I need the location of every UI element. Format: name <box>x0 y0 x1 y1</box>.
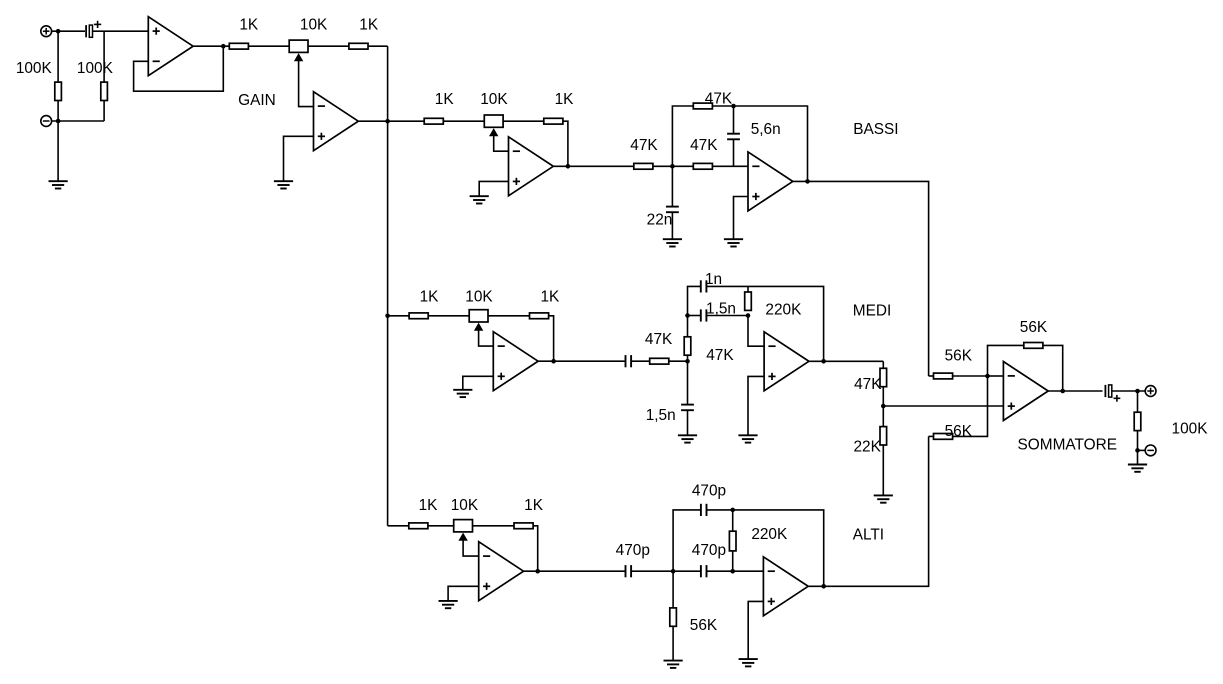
svg-text:5,6n: 5,6n <box>751 121 781 138</box>
svg-text:47K: 47K <box>645 331 673 348</box>
wire U9 +in to ground <box>748 601 763 659</box>
wire 100K #2 down <box>103 101 105 122</box>
wire pot wiper to U5 -in <box>479 330 494 346</box>
wire U6 output <box>809 360 883 362</box>
node bus MEDI tap <box>385 314 390 319</box>
capacitor C output (polarized) <box>1104 385 1106 397</box>
wire bus to 1K ALTI <box>388 525 409 527</box>
node U6 output <box>821 359 826 364</box>
wire U2 output row <box>359 120 425 122</box>
wire cap 22n to ground <box>671 212 673 239</box>
potentiometer 10K MEDI <box>469 310 488 322</box>
svg-text:BASSI: BASSI <box>853 121 898 138</box>
svg-text:1K: 1K <box>524 497 544 514</box>
wire pot wiper to U3 -in <box>494 136 509 152</box>
wire U6 +in to ground <box>748 376 764 435</box>
wire fb to output <box>1043 345 1063 391</box>
ground U5 +in <box>453 389 472 391</box>
wire 100K out down <box>1137 431 1139 465</box>
resistor 1K (GAIN in) <box>229 43 248 49</box>
wire node G to 220K <box>732 510 734 531</box>
wire 56K to ground <box>672 626 674 660</box>
wire bus to 1K MEDI <box>388 315 409 317</box>
node MEDI C <box>685 313 690 318</box>
svg-text:10K: 10K <box>451 497 479 514</box>
wire 1K fb to U5 out <box>549 316 554 361</box>
resistor 22K <box>880 427 887 445</box>
wire 100K #1 to node <box>57 101 59 122</box>
svg-text:1K: 1K <box>239 17 259 34</box>
wire node to 100K out <box>1137 391 1139 412</box>
node MEDI D <box>746 313 751 318</box>
wire cap to 47K MEDI <box>631 360 650 362</box>
capacitor 22n <box>666 206 679 208</box>
capacitor 470p (fb top) <box>700 504 702 516</box>
svg-text:47K: 47K <box>854 376 882 393</box>
ground 22K <box>874 494 893 496</box>
ground 22n <box>663 238 682 240</box>
wire 1n to U6 out <box>706 286 823 361</box>
wire pot to 1K fb BASSI <box>503 120 544 122</box>
ground input <box>49 180 68 182</box>
svg-text:56K: 56K <box>945 423 973 440</box>
svg-text:MEDI: MEDI <box>853 302 891 319</box>
wire pot wiper to U2 -in <box>299 61 314 107</box>
wire 1K to pot <box>248 45 289 47</box>
wire signal bus vertical <box>387 46 389 526</box>
wire U3 +in to ground <box>479 181 508 196</box>
wire 1K to pot MEDI <box>428 315 469 317</box>
wire node to - terminal <box>1138 449 1146 451</box>
svg-text:GAIN: GAIN <box>238 92 276 109</box>
node U2 output / bus <box>385 119 390 124</box>
op-amp U7 SOMMATORE <box>1003 362 1048 421</box>
wire 47K div to node E <box>882 387 884 406</box>
resistor 1K (GAIN fb) <box>349 43 368 49</box>
node U1 output <box>221 44 226 49</box>
node MEDI B <box>685 359 690 364</box>
node input bottom <box>56 119 61 124</box>
resistor 47K (BASSI series 2) <box>693 163 712 169</box>
potentiometer 10K BASSI <box>484 115 503 127</box>
svg-text:22K: 22K <box>854 438 882 455</box>
svg-text:470p: 470p <box>692 542 726 559</box>
node divider E <box>881 404 886 409</box>
wire 1K to pot ALTI <box>428 525 453 527</box>
svg-text:1,5n: 1,5n <box>646 407 676 424</box>
op-amp U2 GAIN <box>314 92 359 151</box>
ground U2 +in <box>274 180 293 182</box>
wire 47K fb to node <box>712 105 733 107</box>
wire node to cap 5,6n <box>733 106 735 134</box>
wire node E to 22K <box>882 406 884 427</box>
wire U6 out down to 47K div <box>882 361 884 368</box>
wire U1 feedback <box>134 46 224 91</box>
wire -in node to U7 <box>988 375 1004 377</box>
resistor 47K (divider) <box>880 368 887 386</box>
wire ALTI riser to 56K <box>929 435 934 437</box>
capacitor 5,6n <box>727 133 740 135</box>
wire pot to 1K fb <box>308 45 349 47</box>
node U3 output <box>566 164 571 169</box>
svg-text:22n: 22n <box>647 212 673 229</box>
node ALTI F <box>671 569 676 574</box>
svg-text:1K: 1K <box>420 289 440 306</box>
svg-text:56K: 56K <box>690 617 718 634</box>
svg-text:1K: 1K <box>419 497 439 514</box>
wire 47K to U4 -in <box>712 165 748 167</box>
resistor 100K #2 <box>101 82 108 100</box>
wire 1,5n to node D <box>706 315 748 317</box>
svg-text:47K: 47K <box>706 347 734 364</box>
svg-text:47K: 47K <box>690 137 718 154</box>
wire fb node to U4 out <box>734 106 808 181</box>
input terminal - (left) <box>41 116 52 127</box>
wire node E to U7 +in <box>883 405 1003 407</box>
resistor 1K (MEDI in) <box>409 313 428 319</box>
wire cap 5,6n to -in wire <box>733 139 735 166</box>
op-amp U6 MEDI <box>764 332 809 391</box>
wire down to resistor 100K #1 <box>57 31 59 82</box>
svg-text:10K: 10K <box>480 91 508 108</box>
node U8 output <box>535 569 540 574</box>
wire 47K to 47K BASSI <box>653 165 693 167</box>
svg-text:1K: 1K <box>435 91 455 108</box>
node input top <box>56 29 61 34</box>
resistor 56K (ALTI shunt) <box>670 608 677 626</box>
op-amp U9 ALTI <box>763 557 808 616</box>
wire BASSI riser to 56K <box>929 375 934 377</box>
wire 220K to node H <box>732 551 734 571</box>
input terminal + (left) <box>41 26 52 37</box>
node output top <box>1135 389 1140 394</box>
wire 1,5n shunt to ground <box>687 410 689 435</box>
wire 220K stub top <box>747 286 749 292</box>
wire fb up <box>988 345 1025 376</box>
wire BASSI fb up <box>672 106 693 166</box>
wire down to resistor 100K #2 <box>103 31 105 82</box>
wire U2 +in to ground <box>284 136 314 181</box>
wire 470p top to U9 out <box>707 510 824 586</box>
output terminal + <box>1145 386 1156 397</box>
wire U4 output to summing <box>793 181 929 376</box>
node summing -in <box>985 374 990 379</box>
wire U8 +in to ground <box>448 586 479 601</box>
capacitor 1n <box>700 280 702 292</box>
wire 47K to U6 -in wire <box>669 360 688 362</box>
resistor 1K (ALTI fb) <box>514 523 533 529</box>
resistor 1K (ALTI in) <box>409 523 428 529</box>
wire U1 output <box>193 45 229 47</box>
resistor 1K (BASSI in) <box>424 118 443 124</box>
wire U9 output to summing <box>808 436 928 586</box>
node U7 output <box>1060 389 1065 394</box>
wire node B down to 1,5n gnd cap <box>687 361 689 404</box>
svg-text:47K: 47K <box>705 90 733 107</box>
svg-text:470p: 470p <box>692 482 726 499</box>
wire 470p mid to U9 -in <box>707 570 764 572</box>
svg-text:1K: 1K <box>555 91 575 108</box>
polarity + of input cap <box>94 23 101 25</box>
wire pot wiper to U8 -in <box>463 540 479 556</box>
svg-text:47K: 47K <box>630 137 658 154</box>
resistor 220K (ALTI) <box>729 531 736 551</box>
ground 1,5n shunt <box>678 434 697 436</box>
wire node D to U6 -in <box>748 316 764 347</box>
resistor 56K (sum fb) <box>1024 343 1043 349</box>
wire node C to 1,5n <box>688 315 701 317</box>
capacitor 470p (series 1) <box>625 565 627 577</box>
wire cap to output node <box>1112 390 1146 392</box>
op-amp U8 ALTI stage <box>479 542 524 601</box>
wire 1K to pot BASSI <box>443 120 484 122</box>
ground U6 +in <box>738 434 757 436</box>
op-amp U4 BASSI <box>748 152 793 211</box>
capacitor MEDI series <box>625 355 627 367</box>
capacitor C input (polarized) <box>85 25 87 37</box>
wire 1K fb to U8 out <box>533 526 538 571</box>
wire node A to cap 22n <box>671 166 673 206</box>
ground U9 +in <box>739 658 758 660</box>
capacitor 1,5n (shunt) <box>681 404 694 406</box>
wire U3 output <box>553 165 634 167</box>
wire 1K fb to U3 out <box>563 121 568 166</box>
svg-text:100K: 100K <box>16 60 53 77</box>
wire node B up to 47K vert <box>687 355 689 361</box>
node output bottom <box>1135 448 1140 453</box>
resistor 56K (ALTI sum) <box>934 434 953 440</box>
capacitor 1,5n (fb) <box>700 309 702 321</box>
resistor 47K (BASSI fb) <box>693 103 712 109</box>
resistor 220K (MEDI) <box>745 292 752 310</box>
wire pot to 1K fb MEDI <box>488 315 529 317</box>
wire 1K fb to bus <box>368 45 388 47</box>
wire 470p to node F <box>631 570 673 572</box>
wire node F up to 470p top <box>673 510 701 571</box>
node U5 output <box>551 359 556 364</box>
svg-text:56K: 56K <box>1020 319 1048 336</box>
ground 56K ALTI <box>664 660 683 662</box>
output terminal - <box>1145 445 1156 456</box>
wire U5 +in to ground <box>463 376 494 390</box>
ground U4 +in <box>724 238 743 240</box>
svg-text:1K: 1K <box>359 17 379 34</box>
wire 47K vert to node C <box>687 316 689 338</box>
wire cap to U1 +in <box>92 30 148 32</box>
resistor 100K #1 <box>55 82 62 100</box>
node U4 output <box>805 179 810 184</box>
wire U8 output <box>524 570 625 572</box>
wire U7 output <box>1048 390 1102 392</box>
wire 56K to -in node <box>953 375 988 377</box>
svg-text:470p: 470p <box>616 542 650 559</box>
svg-text:10K: 10K <box>465 289 493 306</box>
wire node F to 470p mid <box>673 570 701 572</box>
wire U5 output <box>538 360 625 362</box>
wire pot to 1K fb ALTI <box>473 525 514 527</box>
wire node C up to 1n <box>688 286 701 315</box>
resistor 100K (output) <box>1134 412 1141 430</box>
resistor 1K (BASSI fb) <box>544 118 563 124</box>
svg-text:220K: 220K <box>751 526 788 543</box>
wire 56K ALTI to -in riser <box>953 376 988 436</box>
wire input - rail <box>52 120 105 122</box>
svg-text:10K: 10K <box>300 17 328 34</box>
node BASSI filter A <box>670 164 675 169</box>
polarity + of output cap <box>1114 397 1121 399</box>
ground output <box>1128 464 1147 466</box>
node ALTI H <box>730 569 735 574</box>
svg-text:1n: 1n <box>705 271 722 288</box>
op-amp U1 input buffer <box>148 17 193 76</box>
resistor 1K (MEDI fb) <box>530 313 549 319</box>
potentiometer 10K GAIN <box>289 40 308 52</box>
resistor 47K (MEDI vert) <box>684 337 691 355</box>
svg-text:56K: 56K <box>945 348 973 365</box>
ground U3 +in <box>470 195 489 197</box>
wire U4 +in to ground <box>734 197 749 240</box>
ground U8 +in <box>439 600 458 602</box>
op-amp U3 BASSI stage <box>509 137 554 196</box>
svg-text:ALTI: ALTI <box>853 526 884 543</box>
resistor 47K (MEDI series) <box>650 358 669 364</box>
wire node to ground <box>57 121 59 181</box>
wire node F down to 56K <box>672 571 674 608</box>
op-amp U5 MEDI stage <box>493 332 538 391</box>
wire input + to cap <box>52 30 85 32</box>
svg-text:220K: 220K <box>765 301 802 318</box>
node U9 output <box>821 584 826 589</box>
resistor 47K (BASSI series 1) <box>634 163 653 169</box>
svg-text:1K: 1K <box>540 289 560 306</box>
resistor 56K (BASSI sum) <box>934 373 953 379</box>
node BASSI fb <box>731 104 736 109</box>
wire 22K to ground <box>882 445 884 495</box>
svg-text:100K: 100K <box>1172 420 1209 437</box>
svg-text:100K: 100K <box>77 60 114 77</box>
potentiometer 10K ALTI <box>454 520 473 532</box>
node ALTI G <box>730 508 735 513</box>
svg-text:SOMMATORE: SOMMATORE <box>1018 437 1117 454</box>
capacitor 470p (series 2) <box>700 565 702 577</box>
